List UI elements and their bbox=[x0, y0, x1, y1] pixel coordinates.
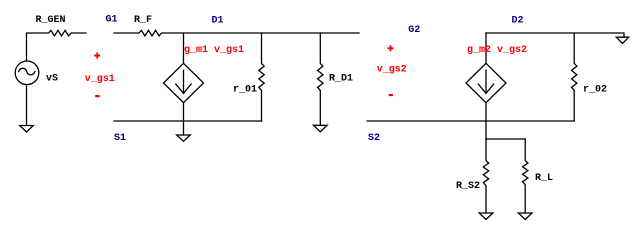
svg-text:G1: G1 bbox=[106, 15, 118, 26]
svg-text:g_m2 v_gs2: g_m2 v_gs2 bbox=[467, 45, 527, 56]
svg-text:r_01: r_01 bbox=[233, 85, 257, 96]
svg-text:g_m1 v_gs1: g_m1 v_gs1 bbox=[184, 45, 244, 56]
svg-text:S2: S2 bbox=[368, 133, 380, 144]
svg-text:v_gs2: v_gs2 bbox=[377, 65, 407, 76]
svg-text:D2: D2 bbox=[512, 16, 524, 27]
svg-text:R_L: R_L bbox=[535, 173, 553, 184]
svg-text:R_F: R_F bbox=[134, 15, 152, 26]
svg-text:S1: S1 bbox=[114, 133, 126, 144]
svg-text:r_02: r_02 bbox=[583, 85, 607, 96]
svg-text:v_gs1: v_gs1 bbox=[85, 74, 115, 85]
svg-text:R_GEN: R_GEN bbox=[36, 15, 66, 26]
svg-text:G2: G2 bbox=[408, 25, 420, 36]
svg-text:R_S2: R_S2 bbox=[456, 181, 480, 192]
svg-text:vS: vS bbox=[46, 74, 58, 85]
svg-text:D1: D1 bbox=[212, 15, 224, 26]
svg-text:R_D1: R_D1 bbox=[329, 74, 353, 85]
